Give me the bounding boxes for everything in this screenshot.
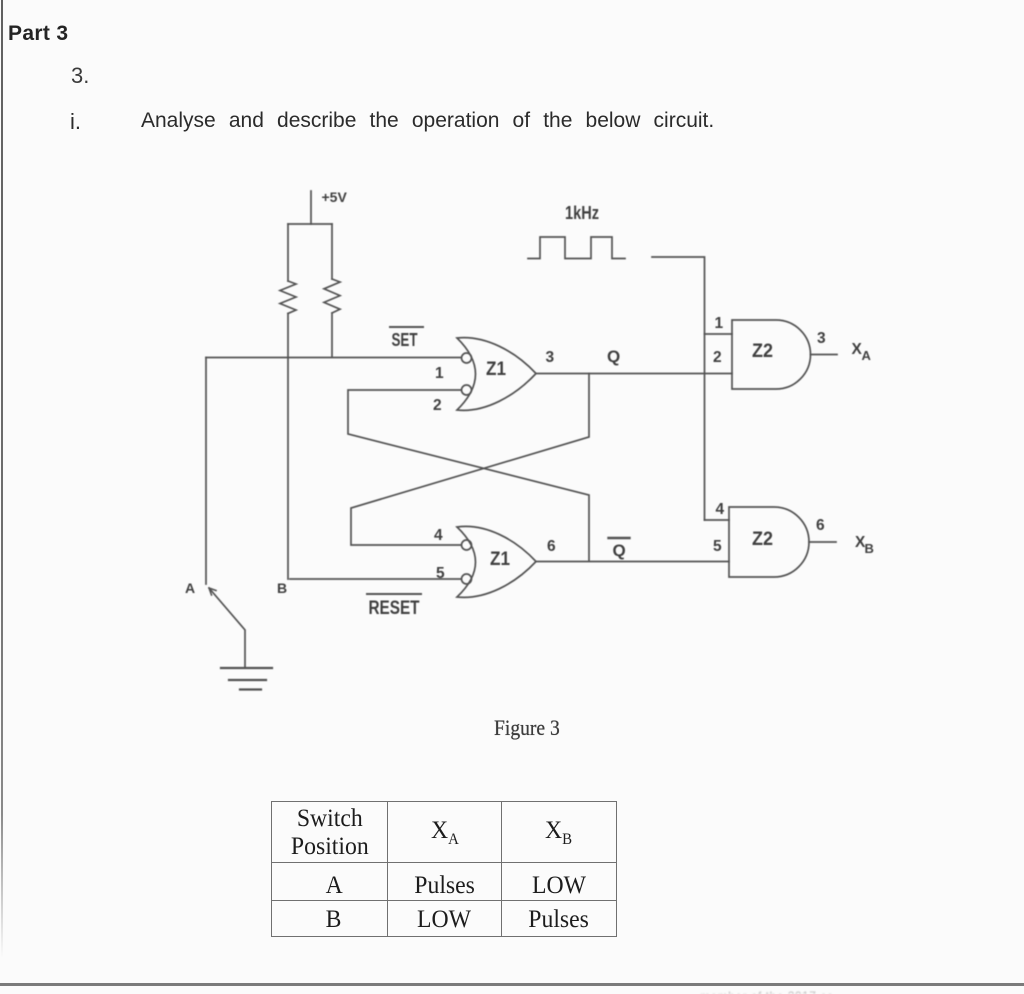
svg-text:3: 3 [817, 330, 826, 347]
wire SET line [206, 357, 461, 359]
wire XB output [809, 541, 836, 543]
svg-text:1: 1 [715, 315, 724, 332]
switch arrowhead at A [209, 588, 216, 595]
svg-text:Q: Q [607, 347, 620, 366]
svg-text:5: 5 [713, 538, 722, 555]
resistor R2 (right pull-up) [324, 279, 340, 313]
Qbar overline [609, 537, 630, 539]
wire RESET line [290, 578, 461, 580]
NOR gate Z1 bottom (negative-input OR) [457, 526, 536, 597]
+5V supply stub [310, 191, 312, 224]
svg-text:2: 2 [713, 349, 722, 366]
svg-text:Z2: Z2 [752, 529, 773, 550]
svg-text:1kHz: 1kHz [565, 203, 599, 223]
wire Q output [536, 373, 732, 375]
svg-text:4: 4 [716, 501, 725, 518]
resistor R1 (left pull-up) [280, 281, 296, 314]
input bubble pin2 [462, 385, 472, 395]
input bubble pin5 [462, 574, 472, 584]
left page border line [1, 0, 3, 958]
svg-text:6: 6 [547, 538, 556, 555]
svg-text:5: 5 [436, 565, 445, 582]
svg-text:3: 3 [546, 349, 555, 366]
svg-text:1: 1 [435, 365, 444, 382]
NOR gate Z1 top (negative-input OR) [457, 338, 536, 411]
wire AND2 pin4 elbow [705, 519, 730, 521]
input bubble pin1 [462, 353, 472, 363]
switch arm A->ground [209, 588, 245, 668]
heading Part 3 [8, 23, 68, 44]
svg-text:4: 4 [434, 527, 443, 544]
ground [221, 668, 272, 690]
svg-text:B: B [277, 580, 287, 596]
item i. [70, 111, 81, 133]
faint cut-off footer text [700, 989, 940, 994]
SET overline [390, 326, 423, 328]
figure caption [494, 717, 560, 739]
AND gate Z2 bottom [729, 507, 809, 577]
item number 3. [71, 65, 89, 87]
svg-text:2: 2 [433, 397, 442, 414]
clock waveform 1kHz [528, 237, 625, 259]
wire left pullup top lead [287, 224, 289, 281]
question text [141, 110, 714, 131]
wire clock to bus [652, 257, 705, 520]
AND gate Z2 top [732, 320, 811, 389]
svg-text:6: 6 [816, 517, 825, 534]
wire left pullup bottom lead to B contact [287, 314, 289, 580]
RESET overline [367, 593, 421, 595]
wire AND1 pin1 [705, 333, 733, 335]
svg-text:+5V: +5V [322, 189, 348, 205]
svg-text:Z2: Z2 [752, 341, 773, 362]
input bubble pin4 [462, 540, 472, 550]
svg-text:SET: SET [392, 329, 419, 350]
wire right pullup top lead [331, 224, 333, 279]
wire right pullup bottom lead [331, 313, 333, 357]
svg-text:Z1: Z1 [486, 359, 506, 380]
bottom rule [0, 983, 1024, 986]
wire A branch vertical [205, 358, 207, 585]
wire pin2 feedback [348, 390, 589, 561]
svg-text:A: A [862, 348, 872, 363]
svg-text:Q: Q [613, 541, 626, 560]
svg-text:Z1: Z1 [490, 549, 510, 570]
svg-text:RESET: RESET [369, 598, 420, 619]
svg-text:A: A [185, 580, 195, 596]
wire Q to pin4 feedback [351, 374, 589, 546]
wire XA output [811, 354, 838, 356]
top bar joining pullups [288, 223, 332, 225]
svg-text:B: B [865, 541, 874, 556]
wire Qbar output [536, 561, 729, 563]
